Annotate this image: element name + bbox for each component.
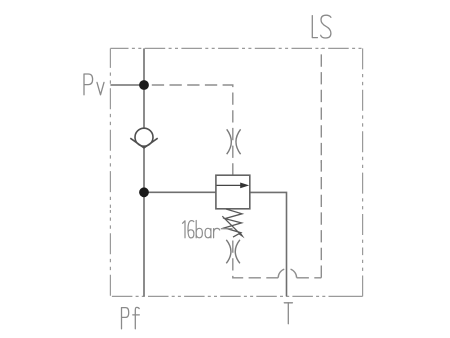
node B: junction dot at relief inlet bbox=[139, 187, 149, 197]
wire: relief outlet to T port bbox=[250, 192, 287, 296]
LS riser (dashed) up to envelope border bbox=[320, 160, 322, 278]
relief valve flow arrow bbox=[217, 184, 242, 186]
orifice (lower, in drain line) bbox=[226, 240, 240, 263]
relief valve spring bbox=[224, 209, 242, 237]
orifice (upper, in pilot line) bbox=[227, 129, 241, 154]
check valve CV1 (ball in seat) bbox=[130, 128, 157, 148]
port label T bbox=[284, 303, 292, 324]
port label Pv bbox=[84, 74, 104, 95]
boundary envelope (dash-dot-dot phantom border) bbox=[110, 48, 362, 296]
port label Pf bbox=[122, 307, 140, 328]
drain/LS line (dashed) from spring chamber to hop bbox=[233, 239, 278, 278]
node A: junction dot at Pv bbox=[139, 80, 149, 90]
wire: main vertical Pv-Pf line bbox=[143, 48, 145, 296]
pilot line (dashed) from node A to relief valve top bbox=[149, 85, 233, 175]
wire: Pv port stub bbox=[110, 84, 144, 86]
line jump (hop) over T line bbox=[278, 269, 284, 278]
drain/LS line (dashed) from hop to corner bbox=[297, 277, 322, 279]
value label 16bar bbox=[183, 221, 220, 238]
leader line from 16bar label bbox=[221, 228, 233, 230]
adjustment arrow across spring bbox=[222, 216, 240, 234]
relief valve RV1 body bbox=[216, 175, 250, 209]
wire: relief inlet from node B bbox=[144, 191, 216, 193]
port label LS bbox=[312, 15, 331, 38]
